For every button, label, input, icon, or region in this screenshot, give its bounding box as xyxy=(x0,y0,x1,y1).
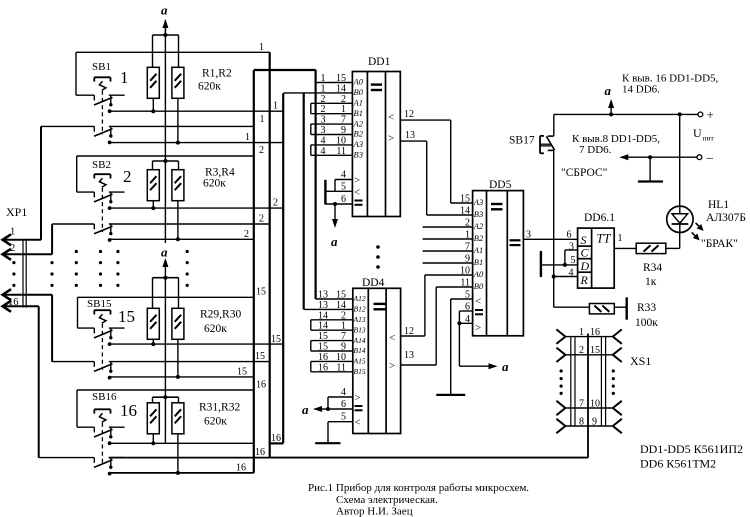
svg-text:12: 12 xyxy=(404,109,414,120)
wire SB17 vertical to R33 xyxy=(554,151,590,307)
chip DD4 input labels xyxy=(353,294,366,376)
svg-text:R: R xyxy=(580,273,589,287)
wire R4 bottom stub xyxy=(177,201,179,239)
svg-text:10: 10 xyxy=(460,266,470,277)
svg-text:14 DD6.: 14 DD6. xyxy=(622,84,660,96)
svg-text:2: 2 xyxy=(244,229,249,240)
wire DD4 pin6 to net a (left arrow) xyxy=(302,402,328,417)
resistor R1 xyxy=(147,67,159,98)
svg-text:3: 3 xyxy=(321,125,326,136)
svg-text:R34: R34 xyxy=(643,262,662,274)
svg-text:B1: B1 xyxy=(354,108,363,118)
chip DD6.1 section labels S C D R TT xyxy=(580,232,612,288)
svg-text:a: a xyxy=(331,234,338,249)
svg-text:–: – xyxy=(706,150,714,165)
chip DD4 function symbol = xyxy=(374,304,386,309)
switch SB15 pole 1 xyxy=(78,328,125,346)
chip DD5 function symbol = xyxy=(491,204,503,209)
svg-text:2: 2 xyxy=(321,104,326,115)
svg-text:U: U xyxy=(693,126,702,140)
svg-text:100к: 100к xyxy=(635,317,658,329)
LED HL1 xyxy=(667,206,693,232)
text K vyv 16 xyxy=(622,73,719,96)
wire DD6.1 R pin xyxy=(554,276,578,278)
svg-text:15: 15 xyxy=(590,345,600,356)
chip DD5 output symbol = xyxy=(510,240,521,245)
ground below DD5 xyxy=(436,394,465,396)
value label R33 100k xyxy=(635,302,658,329)
svg-text:a: a xyxy=(302,402,309,417)
wire net a vertical (upper section) xyxy=(164,29,166,243)
node R31 junction xyxy=(151,441,155,445)
wire bus bottom bridge V2-V3 xyxy=(270,442,284,444)
svg-text:10: 10 xyxy=(590,398,600,409)
svg-text:DD4: DD4 xyxy=(362,277,385,289)
svg-text:9: 9 xyxy=(592,416,597,427)
svg-text:A14: A14 xyxy=(353,336,366,345)
svg-text:R29,R30: R29,R30 xyxy=(200,309,241,321)
switch SB17 xyxy=(540,114,555,153)
svg-text:16: 16 xyxy=(120,401,137,420)
wire R32 bottom stub xyxy=(177,434,179,473)
node bracket R29R30 top xyxy=(153,276,179,309)
wire DD4 pin5 to ground xyxy=(327,422,329,444)
resistor R34 1k xyxy=(636,243,666,253)
svg-text:15: 15 xyxy=(318,342,328,353)
node a junction on plus rail xyxy=(609,112,613,116)
chip DD5 pin number labels xyxy=(460,194,470,325)
node R3 junction xyxy=(151,206,155,210)
svg-text:3: 3 xyxy=(526,230,531,241)
label Upit xyxy=(693,126,715,143)
svg-text:"СБРОС": "СБРОС" xyxy=(561,167,607,179)
svg-text:6: 6 xyxy=(341,194,346,205)
svg-text:7: 7 xyxy=(341,115,346,126)
svg-text:1: 1 xyxy=(321,83,326,94)
resistor R32 xyxy=(172,403,184,434)
svg-text:R1,R2: R1,R2 xyxy=(202,68,232,80)
node bracket R1R2 top xyxy=(153,33,179,67)
svg-text:<: < xyxy=(388,112,394,124)
svg-text:9: 9 xyxy=(341,125,346,136)
wire minus rail xyxy=(623,156,697,158)
node DD4 pin6 junction xyxy=(326,407,330,411)
svg-text:A2: A2 xyxy=(473,221,484,231)
node R1 junction xyxy=(151,109,155,113)
svg-text:7: 7 xyxy=(341,331,346,342)
resistor R3 xyxy=(147,170,159,201)
chip DD1 pin number labels xyxy=(321,73,347,157)
svg-text:8: 8 xyxy=(579,416,584,427)
wire XP1 pin15 to SB15 pole2 xyxy=(22,295,52,362)
svg-text:A3: A3 xyxy=(473,197,483,207)
node LED junction on plus rail xyxy=(678,112,682,116)
chip DD4 cascade pins 4 6 5 xyxy=(328,387,363,429)
svg-text:a: a xyxy=(161,3,168,18)
socket XS1 ellipsis dots xyxy=(560,369,615,395)
switch SB16 pole 1 xyxy=(77,427,125,445)
wire R33 right lead to terminal bar xyxy=(614,306,626,308)
svg-text:B14: B14 xyxy=(354,346,366,355)
svg-text:A12: A12 xyxy=(353,294,366,303)
svg-text:TT: TT xyxy=(597,232,612,246)
switch SB1 pole 2 xyxy=(41,126,125,144)
svg-text:a: a xyxy=(605,83,612,98)
svg-text:16: 16 xyxy=(590,327,600,338)
svg-text:11: 11 xyxy=(336,146,346,157)
svg-text:620к: 620к xyxy=(204,416,227,428)
svg-text:16: 16 xyxy=(318,352,328,363)
svg-text:SB16: SB16 xyxy=(92,391,117,403)
svg-text:<: < xyxy=(355,417,361,429)
svg-text:SB17: SB17 xyxy=(509,135,535,147)
wire bus vertical V5 xyxy=(315,70,317,299)
svg-text:9: 9 xyxy=(465,254,470,265)
svg-text:1: 1 xyxy=(120,68,129,87)
svg-text:A0: A0 xyxy=(353,77,364,87)
socket XS1 pin numbers xyxy=(579,327,600,427)
svg-text:14: 14 xyxy=(318,310,328,321)
terminal bar at R33 xyxy=(626,297,628,319)
minus rail left arrow xyxy=(619,154,628,160)
node R30 junction xyxy=(176,375,180,379)
node DD1 pin6 junction xyxy=(333,202,337,206)
svg-text:2: 2 xyxy=(123,167,132,186)
svg-text:R33: R33 xyxy=(637,302,656,314)
net a mid arrow (above SB15) xyxy=(161,245,168,278)
svg-text:<: < xyxy=(354,186,360,198)
svg-text:DD5: DD5 xyxy=(489,179,512,191)
wire DD1 pin6 to net a (down arrow) xyxy=(331,204,338,249)
svg-text:A13: A13 xyxy=(353,315,366,324)
wire net2 B (SB2 pole2 to bus) xyxy=(125,223,270,225)
svg-text:6: 6 xyxy=(341,399,346,410)
svg-text:>: > xyxy=(354,175,360,187)
wire XP1 pin2 to SB2 pole2 xyxy=(22,224,52,254)
svg-text:Схема электрическая.: Схема электрическая. xyxy=(336,494,438,506)
text K vyv 8 xyxy=(572,133,660,156)
wire R29 bottom stub xyxy=(152,339,154,344)
wire SB1 box top xyxy=(76,52,270,95)
svg-text:<: < xyxy=(389,332,395,344)
svg-text:2: 2 xyxy=(273,198,278,209)
svg-text:B3: B3 xyxy=(474,209,483,219)
svg-text:15: 15 xyxy=(271,334,281,345)
chip DD6.1 pin labels xyxy=(567,230,623,279)
switch SB2 pole 2 xyxy=(52,224,125,242)
wire DD5 pin5 to ground xyxy=(451,299,473,395)
connector XP1 pin 15 xyxy=(3,289,22,300)
wire R1 bottom stub xyxy=(152,98,154,111)
resistor R29 xyxy=(147,308,159,339)
svg-text:9: 9 xyxy=(341,342,346,353)
svg-text:7: 7 xyxy=(465,242,470,253)
svg-text:A3: A3 xyxy=(353,139,363,149)
wire DD6.1 D pin from terminal bar xyxy=(541,264,578,266)
svg-text:1: 1 xyxy=(259,42,264,53)
svg-text:a: a xyxy=(161,245,168,260)
svg-text:6: 6 xyxy=(567,230,572,241)
svg-text:"БРАК": "БРАК" xyxy=(701,238,738,250)
wire net a vertical (lower section) xyxy=(164,278,166,444)
chip DD6.1 box xyxy=(578,228,615,288)
wire SB16 box top xyxy=(77,390,254,427)
svg-text:B2: B2 xyxy=(354,129,364,139)
svg-text:B1: B1 xyxy=(474,257,483,267)
svg-text:>: > xyxy=(355,392,361,404)
wire DD5 pin6 pin4 tie xyxy=(459,311,472,366)
svg-text:A1: A1 xyxy=(353,98,363,108)
switch SB1 actuator xyxy=(94,77,110,134)
value label R1,R2 620k xyxy=(198,68,232,93)
svg-text:1к: 1к xyxy=(645,276,657,288)
wire plus rail to LED xyxy=(679,114,681,206)
svg-text:2: 2 xyxy=(321,94,326,105)
svg-text:620к: 620к xyxy=(198,81,221,93)
resistor R33 100k xyxy=(589,304,614,314)
svg-text:16: 16 xyxy=(236,463,246,474)
wire net16 B (SB16 pole2 to long bottom wire) xyxy=(109,457,588,459)
svg-text:5: 5 xyxy=(341,412,346,423)
svg-text:7: 7 xyxy=(579,398,584,409)
svg-text:B0: B0 xyxy=(474,281,484,291)
resistor R30 xyxy=(172,308,184,339)
wire R30 bottom stub xyxy=(177,339,179,377)
svg-text:13: 13 xyxy=(318,290,328,301)
switch SB2 actuator xyxy=(94,174,110,232)
ground below minus rail xyxy=(638,157,663,181)
net a arrow at plus rail xyxy=(605,83,615,114)
svg-text:DD1: DD1 xyxy=(368,56,391,68)
svg-text:15: 15 xyxy=(318,331,328,342)
terminal bar at DD6.1 D xyxy=(540,251,542,277)
wire long bottom to XS1 xyxy=(270,334,588,458)
wire net15 B (SB15 pole2 to bus) xyxy=(125,361,270,363)
wire net1 B (SB1 pole2 to bus) xyxy=(125,125,254,127)
wire XP1 pin16 to SB16 pole2 xyxy=(22,306,39,457)
switch SB1 pole 1 xyxy=(76,95,125,113)
svg-text:HL1: HL1 xyxy=(708,199,729,211)
svg-text:A15: A15 xyxy=(353,357,366,366)
svg-text:DD6 К561ТМ2: DD6 К561ТМ2 xyxy=(640,457,716,471)
svg-text:620к: 620к xyxy=(204,323,227,335)
node ground junction on minus rail xyxy=(648,155,652,159)
svg-text:DD1-DD5 К561ИП2: DD1-DD5 К561ИП2 xyxy=(640,442,743,456)
node C-D junction xyxy=(563,263,567,267)
svg-text:620к: 620к xyxy=(203,178,226,190)
value label R3,R4 620k xyxy=(203,167,235,190)
resistor R31 xyxy=(147,403,159,434)
svg-text:1: 1 xyxy=(341,321,346,332)
svg-text:16: 16 xyxy=(318,362,328,373)
switch SB15 actuator xyxy=(94,310,110,369)
net a top arrow xyxy=(161,3,168,36)
wire R2 bottom stub xyxy=(177,98,179,142)
node R2 junction xyxy=(176,141,180,145)
value label R31,R32 620k xyxy=(199,402,240,428)
wire SB15 box top xyxy=(78,297,254,328)
svg-text:13: 13 xyxy=(318,300,328,311)
svg-text:15: 15 xyxy=(237,367,247,378)
chip DD1 function symbol = xyxy=(371,85,382,90)
node R29 junction xyxy=(151,342,155,346)
svg-text:2: 2 xyxy=(259,145,264,156)
wire net1 A (SB1 common to bus) xyxy=(110,110,284,112)
svg-text:13: 13 xyxy=(404,350,414,361)
svg-text:2: 2 xyxy=(341,310,346,321)
svg-text:3: 3 xyxy=(321,115,326,126)
svg-text:1: 1 xyxy=(579,327,584,338)
svg-text:<: < xyxy=(475,296,481,308)
wire DD5 pin6 to net a (right arrow) xyxy=(459,359,509,374)
svg-text:16: 16 xyxy=(271,433,281,444)
switch SB16 pole 2 xyxy=(39,458,125,476)
wire bus vertical V1 xyxy=(253,70,255,473)
node R4 junction xyxy=(176,237,180,241)
chip DD4 pin wires xyxy=(304,299,353,372)
svg-text:14: 14 xyxy=(318,321,328,332)
svg-text:SB1: SB1 xyxy=(92,61,111,73)
resistor R2 xyxy=(172,67,184,98)
wire net15 A (SB15 common to bus) xyxy=(110,343,284,345)
wire XP1 pin1 to SB1 pole2 xyxy=(22,126,41,239)
wire bus vertical V4 xyxy=(303,93,305,309)
svg-text:5: 5 xyxy=(341,181,346,192)
svg-text:15: 15 xyxy=(336,290,346,301)
terminal plus xyxy=(698,112,703,117)
connector XP1 pin 1 xyxy=(3,234,22,245)
wire bus top bar xyxy=(254,69,316,71)
svg-text:13: 13 xyxy=(405,130,415,141)
svg-text:4: 4 xyxy=(341,387,346,398)
svg-text:1: 1 xyxy=(245,132,250,143)
node R32 junction xyxy=(176,471,180,475)
svg-text:A1: A1 xyxy=(473,245,483,255)
svg-text:16: 16 xyxy=(8,297,19,308)
ground below DD4 xyxy=(315,442,340,444)
wire DD4 pin12 to DD5 A0 xyxy=(401,275,473,336)
svg-text:B13: B13 xyxy=(354,325,366,334)
terminal minus xyxy=(697,155,702,160)
connector XP1 body xyxy=(23,240,26,308)
svg-text:B0: B0 xyxy=(354,87,364,97)
value label R29,R30 620k xyxy=(200,309,241,336)
chip DD1 box xyxy=(352,72,400,217)
svg-text:>: > xyxy=(388,133,394,145)
chip DD1 input labels xyxy=(353,77,364,160)
svg-text:A2: A2 xyxy=(353,118,364,128)
wire R3 bottom stub xyxy=(152,201,154,208)
svg-text:11: 11 xyxy=(460,278,470,289)
svg-text:SB15: SB15 xyxy=(87,298,112,310)
svg-text:>: > xyxy=(389,360,395,372)
svg-text:15: 15 xyxy=(118,307,135,326)
wire DD4 pin13 to DD5 B0 xyxy=(401,287,473,365)
wire DD1 pin13 to DD5 B3 xyxy=(400,141,472,215)
wire SB2 box top xyxy=(77,156,254,192)
svg-text:16: 16 xyxy=(255,447,265,458)
svg-text:2: 2 xyxy=(579,345,584,356)
svg-text:XS1: XS1 xyxy=(630,354,651,368)
svg-text:2: 2 xyxy=(341,94,346,105)
node R junction on SB17 vertical xyxy=(552,275,556,279)
socket XS1 body lines xyxy=(571,337,606,426)
wire net2 A (SB2 common to bus) xyxy=(110,207,284,209)
svg-text:a: a xyxy=(502,359,509,374)
svg-text:1: 1 xyxy=(10,227,15,238)
svg-text:DD6.1: DD6.1 xyxy=(584,212,615,224)
svg-text:>: > xyxy=(475,322,481,334)
svg-text:Рис.1 Прибор для контроля рабо: Рис.1 Прибор для контроля работы микросх… xyxy=(308,482,529,494)
wire R34 to LED xyxy=(666,232,680,248)
wire bus vertical V2 xyxy=(269,52,271,457)
svg-text:Автор Н.И. Заец: Автор Н.И. Заец xyxy=(336,506,413,517)
svg-text:4: 4 xyxy=(321,146,326,157)
wire bus vertical V3 xyxy=(282,93,284,443)
svg-text:1: 1 xyxy=(273,101,278,112)
wire net15 D (SB15 pole2 common to bus) xyxy=(110,376,254,378)
ellipsis dots continuation region xyxy=(12,250,188,287)
terminal bar at DD1 cascade xyxy=(324,180,326,205)
svg-text:1: 1 xyxy=(260,114,265,125)
svg-text:R31,R32: R31,R32 xyxy=(199,402,240,414)
chip DD5 input stub wires A2 B2 A1 B1 xyxy=(423,227,473,263)
node bracket R31R32 top xyxy=(153,395,179,403)
svg-text:2: 2 xyxy=(10,243,15,254)
switch SB15 pole 2 xyxy=(52,362,125,380)
svg-text:1: 1 xyxy=(321,73,326,84)
svg-text:B15: B15 xyxy=(354,367,366,376)
svg-text:14: 14 xyxy=(336,300,346,311)
chip DD1 cascade pins 4 5 6 xyxy=(325,170,362,206)
svg-text:16: 16 xyxy=(256,380,266,391)
chip DD1 outputs 12 13 xyxy=(388,109,415,145)
ellipsis dots DD2 DD3 omitted xyxy=(376,245,380,269)
svg-text:15: 15 xyxy=(255,351,265,362)
chip DD4 box xyxy=(353,288,401,433)
switch SB16 actuator xyxy=(94,409,110,465)
chip DD5 box xyxy=(473,191,524,336)
connector XP1 pin 2 xyxy=(3,249,22,260)
svg-text:1: 1 xyxy=(618,233,623,244)
wire R31 bottom stub xyxy=(152,434,154,443)
svg-text:+: + xyxy=(707,107,714,122)
svg-text:15: 15 xyxy=(460,194,470,205)
node bracket R3R4 top xyxy=(153,159,179,170)
svg-text:АЛ307Б: АЛ307Б xyxy=(706,212,746,224)
svg-text:2: 2 xyxy=(259,214,264,225)
node DD5 pin4 junction xyxy=(457,321,461,325)
wire DD6.1 C pin tie to D xyxy=(565,250,578,265)
svg-text:B12: B12 xyxy=(354,305,366,314)
wire net1 D (SB1 pole2 common to bus) xyxy=(110,142,284,144)
svg-text:пит: пит xyxy=(703,134,715,143)
svg-text:14: 14 xyxy=(336,83,346,94)
svg-text:A0: A0 xyxy=(473,269,484,279)
svg-text:C: C xyxy=(581,246,590,260)
switch SB2 pole 1 xyxy=(77,192,125,210)
svg-text:15: 15 xyxy=(336,73,346,84)
chip DD5 input labels xyxy=(473,197,484,334)
svg-text:4: 4 xyxy=(341,170,346,181)
svg-text:11: 11 xyxy=(336,362,346,373)
svg-text:SB2: SB2 xyxy=(92,159,111,171)
value label R34 1k xyxy=(643,262,662,288)
wire net16 A (SB16 common to bus) xyxy=(110,442,254,444)
svg-text:D: D xyxy=(580,259,590,273)
svg-text:1: 1 xyxy=(465,230,470,241)
chip DD4 outputs 12 13 xyxy=(389,326,414,372)
